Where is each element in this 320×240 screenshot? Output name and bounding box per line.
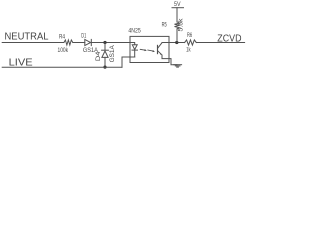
svg-text:ZCVD: ZCVD: [217, 33, 241, 44]
svg-text:D1: D1: [81, 33, 86, 40]
resistor R5: [175, 22, 180, 29]
wire LED cathode inside: [134, 50, 136, 57]
node junction dot top: [103, 41, 106, 44]
wire D4 anode drop: [104, 43, 106, 51]
wire output: [196, 42, 244, 44]
transistor Q1 base bar: [157, 45, 159, 53]
wire D4 cathode drop: [104, 57, 106, 67]
wire R4 to D1: [73, 42, 85, 44]
svg-text:LIVE: LIVE: [9, 57, 33, 68]
wire NEUTRAL rail: [2, 42, 64, 44]
svg-text:GS1A: GS1A: [109, 45, 116, 63]
wire R5 to junction: [176, 29, 178, 43]
wire LED anode inside: [130, 43, 135, 45]
diode D1: [85, 39, 91, 45]
light arrow 2: [148, 50, 153, 51]
op-amp U1 optocoupler 4N25 box: [130, 36, 169, 62]
svg-text:NEUTRAL: NEUTRAL: [5, 31, 49, 42]
wire D1 to opto: [91, 42, 130, 44]
light arrow 1: [140, 48, 145, 51]
wire collector to junction: [162, 42, 185, 44]
svg-text:R5: R5: [162, 21, 167, 28]
wire LIVE rail riser to opto cathode: [122, 57, 135, 67]
wire emitter to ground: [162, 55, 177, 65]
wire 5V to R5: [176, 8, 178, 22]
svg-text:D4: D4: [95, 51, 102, 61]
node junction dot bottom: [103, 66, 106, 69]
svg-text:4N25: 4N25: [128, 28, 141, 35]
diode LED inside opto: [132, 45, 137, 50]
svg-text:1k: 1k: [186, 47, 191, 54]
svg-text:100k: 100k: [58, 47, 69, 54]
wire LIVE rail: [2, 66, 122, 68]
svg-text:R4: R4: [59, 34, 65, 41]
node junction dot R5/R6: [175, 41, 178, 44]
resistor R4: [64, 40, 73, 45]
transistor emitter lead: [158, 51, 162, 54]
transistor collector lead: [158, 43, 162, 49]
diode D4: [102, 49, 109, 51]
svg-text:5.6k: 5.6k: [179, 17, 185, 31]
resistor R6: [185, 40, 197, 45]
svg-text:5V: 5V: [174, 1, 181, 8]
svg-text:R6: R6: [187, 32, 192, 39]
ground: [174, 64, 182, 66]
